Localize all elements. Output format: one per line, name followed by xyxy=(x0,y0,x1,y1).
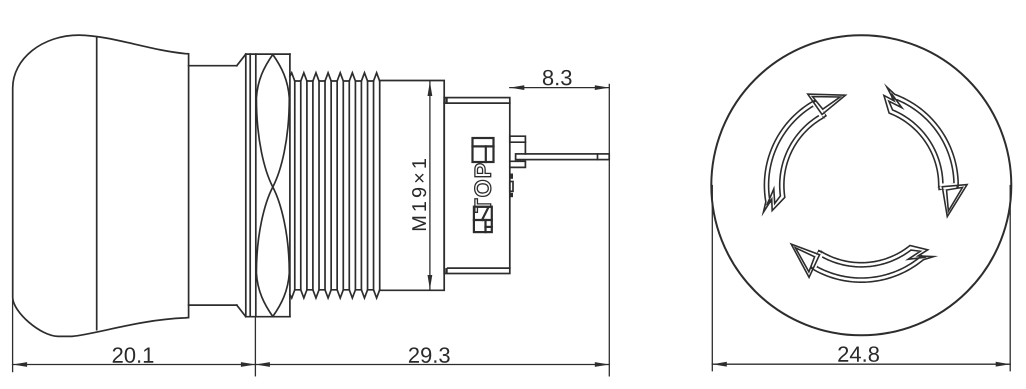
flange bottom edge xyxy=(246,316,290,318)
dimension text 29.3 xyxy=(409,347,450,363)
extension line head/nut boundary xyxy=(254,318,256,376)
arrowhead M19x1 bottom xyxy=(428,275,433,290)
front view: button face circle xyxy=(711,35,1011,335)
dimension line 8.3 xyxy=(510,87,610,89)
thread label M19x1 xyxy=(412,159,426,230)
TOP text xyxy=(475,164,491,213)
arrowhead 20.1 right xyxy=(241,362,256,367)
arrowhead 29.3 right xyxy=(595,362,610,367)
flange chamfer top xyxy=(237,54,246,66)
extension line right (blade tip) xyxy=(608,84,610,375)
arrowhead 8.3 right xyxy=(595,85,610,90)
latch details xyxy=(510,174,513,179)
rotation arrow bottom xyxy=(790,186,933,316)
rotation arrows xyxy=(763,87,989,316)
head front face line xyxy=(96,37,98,330)
neck cylinder xyxy=(189,65,237,67)
side view: mushroom head outline xyxy=(13,35,189,336)
dimension line 24.8 xyxy=(712,363,1010,365)
terminal upper step xyxy=(510,136,526,142)
body housing xyxy=(380,81,445,291)
thread profile top xyxy=(290,73,380,81)
rotation arrow right xyxy=(846,87,989,217)
arrowhead M19x1 top xyxy=(428,82,433,97)
groove lines xyxy=(249,54,251,317)
extension line circle left xyxy=(711,186,713,371)
dimension text 8.3 xyxy=(543,70,572,86)
dimension line M19x1 xyxy=(429,82,431,290)
terminal lower step xyxy=(510,161,526,167)
arrowhead 8.3 left xyxy=(510,85,525,90)
flange front face xyxy=(245,54,247,317)
arrowhead 29.3 left xyxy=(255,362,270,367)
TOP label icon upper xyxy=(473,138,494,162)
extension line circle right xyxy=(1009,186,1011,371)
knurl twist curve 1 xyxy=(256,55,289,317)
knurled ring right edge xyxy=(289,54,291,317)
blade tick xyxy=(597,154,599,160)
arrowhead 24.8 left xyxy=(712,362,727,367)
thread flank verticals xyxy=(295,81,380,290)
switch block xyxy=(444,98,510,274)
knurl twist curve 2 xyxy=(256,55,289,317)
dimension line 20.1 xyxy=(13,364,256,366)
dimension text 24.8 xyxy=(838,346,879,362)
terminal blade xyxy=(516,154,610,160)
TOP label icon lower xyxy=(474,207,492,232)
dimension text 20.1 xyxy=(113,347,154,363)
thread profile bottom xyxy=(290,290,380,298)
flange top edge xyxy=(246,53,290,55)
dimension line 29.3 xyxy=(255,364,609,366)
switch block inner bottom line xyxy=(448,267,510,269)
switch block inner top line xyxy=(444,102,510,104)
rotation arrow upper-left xyxy=(763,94,845,212)
arrowhead 20.1 left xyxy=(13,362,28,367)
extension line left (under head edge) xyxy=(12,300,14,372)
flange chamfer bottom xyxy=(237,305,246,317)
arrowhead 24.8 right xyxy=(996,362,1011,367)
